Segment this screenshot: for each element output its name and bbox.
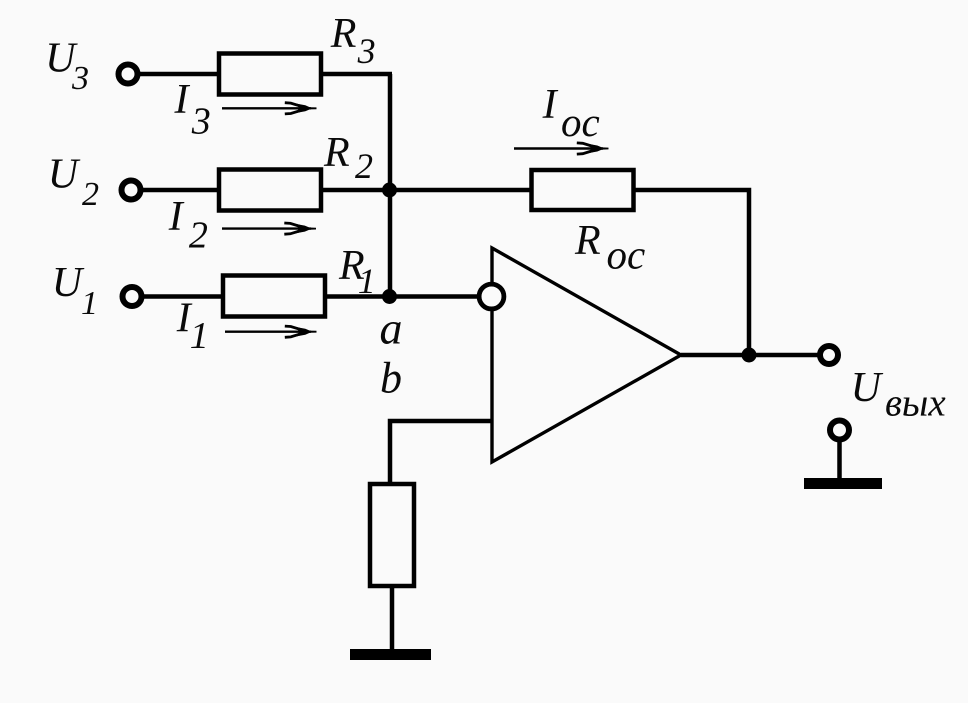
op-amp U1 triangle [492, 248, 681, 462]
ground bar (output reference) [804, 478, 882, 489]
wire Roc to output node [633, 190, 749, 355]
svg-text:2: 2 [355, 146, 373, 186]
wire op-amp output [681, 353, 818, 358]
wire resistor to ground [390, 586, 395, 652]
junction node at R2 row [382, 183, 397, 198]
inverting input circle [479, 284, 504, 309]
svg-text:2: 2 [82, 176, 99, 213]
svg-text:U: U [851, 365, 884, 411]
svg-text:U: U [52, 260, 85, 306]
current arrow I1 [225, 326, 317, 337]
svg-text:2: 2 [189, 215, 208, 257]
svg-text:b: b [380, 354, 402, 403]
wire node a to inverting input [389, 294, 478, 299]
node a junction [382, 289, 397, 304]
resistor at non-inverting input [370, 484, 414, 586]
svg-text:1: 1 [190, 315, 209, 357]
wire summing bus vertical [388, 74, 393, 297]
current arrow I2 [222, 223, 316, 234]
wire R2 to bus node [321, 188, 392, 193]
svg-text:ос: ос [607, 232, 646, 278]
svg-text:вых: вых [885, 382, 946, 425]
svg-text:3: 3 [191, 101, 211, 143]
wire R1 to node a [325, 294, 392, 299]
wire U1 terminal to R1 [144, 294, 223, 299]
current arrow I3 [222, 103, 317, 114]
wire U2 terminal to R2 [143, 188, 219, 193]
svg-text:I: I [168, 194, 185, 240]
svg-text:ос: ос [561, 99, 600, 145]
ground terminal circle (reference) [830, 421, 849, 440]
input terminal U3 [119, 65, 138, 84]
current arrow Ioc [514, 143, 609, 154]
svg-text:3: 3 [357, 31, 376, 71]
ground bar (bottom) [350, 649, 431, 660]
svg-text:I: I [174, 77, 191, 123]
svg-text:R: R [574, 218, 601, 264]
resistor Roc [532, 170, 634, 210]
svg-text:a: a [380, 303, 403, 354]
svg-text:R: R [323, 130, 350, 176]
output terminal [820, 346, 838, 364]
svg-text:U: U [48, 152, 81, 198]
output junction node [742, 348, 757, 363]
resistor R3 [219, 54, 321, 95]
svg-text:3: 3 [71, 60, 89, 97]
resistor R1 [223, 276, 325, 317]
svg-text:I: I [542, 82, 559, 128]
svg-text:1: 1 [358, 261, 376, 301]
wire R3 to bus [321, 72, 392, 77]
svg-text:1: 1 [81, 285, 98, 322]
input terminal U1 [123, 287, 142, 306]
wire ground terminal stem [837, 442, 842, 480]
wire non-inverting input [390, 421, 492, 486]
wire U3 terminal to R3 [140, 72, 219, 77]
resistor R2 [219, 170, 321, 211]
svg-text:R: R [330, 11, 357, 57]
wire node to Roc [389, 188, 533, 193]
input terminal U2 [122, 181, 141, 200]
